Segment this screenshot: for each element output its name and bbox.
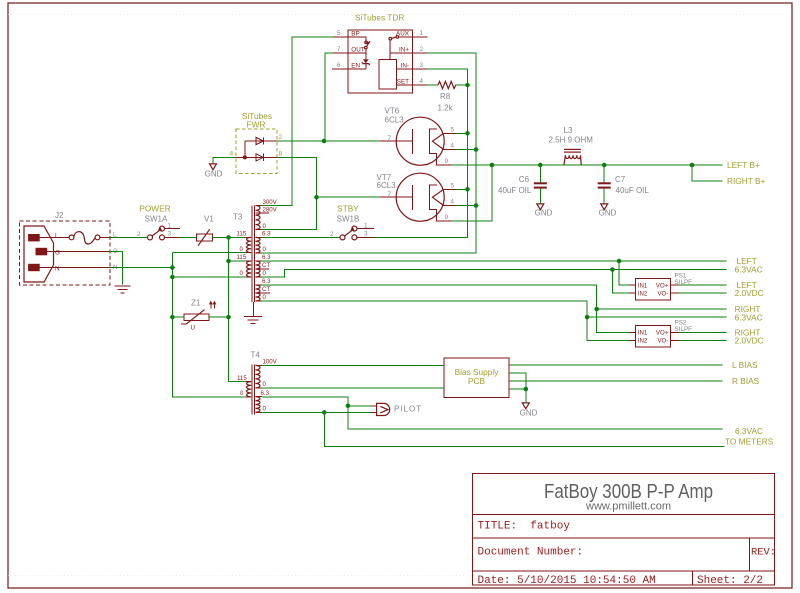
svg-text:IN1: IN1 [638,282,648,289]
T3 primary 2 stubs [246,261,251,277]
svg-text:5: 5 [337,30,341,37]
ground GND arrow at C7 [601,204,608,210]
transformer T3 primary winding 1 [247,237,252,252]
junction pilot feed [346,404,351,409]
T3 tap labels left [237,231,247,278]
T3 primary 1 stubs [246,237,251,252]
svg-text:CT: CT [262,286,270,293]
svg-text:2.5H 9 OHM: 2.5H 9 OHM [549,136,594,145]
svg-text:FWR: FWR [247,120,266,130]
wire B+ rail [452,164,723,166]
svg-text:T3: T3 [233,213,243,222]
VT7 pin numbers [388,183,455,222]
rectifier FWR dashed box [236,129,277,174]
svg-text:GND: GND [205,170,223,179]
T3 winding C stubs and CT [255,285,270,301]
transformer T4 100V secondary winding [255,365,260,388]
TDR internal block rectangle [379,59,397,89]
wire T4 100V to bias supply [262,364,444,366]
svg-text:1: 1 [420,30,424,37]
wire C7 connections [603,165,605,204]
PS2 pin names [638,329,669,344]
svg-text:BP: BP [351,31,359,38]
VT6 pin4 lead [443,149,456,151]
VT7 pin4 lead [443,205,456,207]
TDR internal switch arm [367,41,371,46]
transformer T4 core [252,364,255,414]
T3 tap stub 280V [255,212,269,214]
svg-text:6.3: 6.3 [262,254,271,261]
wire FWR pin4 to GND [213,157,236,163]
T4 primary stubs [246,382,251,397]
junction mains hot bus / T3 115 [226,259,231,264]
svg-text:C6: C6 [519,175,530,184]
wire fuse V1 to T3 primary [213,236,247,238]
junction neutral bus / T3 0 [170,275,175,280]
wire mains G to earth [110,252,123,285]
wire FWR pin2 to VT6 grid [277,140,380,142]
junction mains hot bus top [226,235,231,240]
svg-text:Date: 5/10/2015 10:54:50 AM: Date: 5/10/2015 10:54:50 AM [478,575,656,587]
wire LEFT 6.3VAC line1 [262,260,727,262]
wire PS2 VO+ to RIGHT 2.0VDC [679,332,727,334]
PS1 pin leads [629,285,679,293]
svg-text:OUT: OUT [351,47,364,54]
wire T3 winding C 6.3 to PS2 IN1 [262,285,629,333]
TDR internal IN- SET links [397,69,413,85]
faint print margin dotted line top [8,14,792,16]
inductor L3 winding [564,155,581,165]
svg-text:7: 7 [337,46,341,53]
wire TDR OUT to FWR output [325,53,333,141]
junction bias ground [524,387,529,392]
wire PS1 VO- to LEFT 2.0VDC [679,292,727,294]
wire R8 right link [456,84,468,86]
wire PS2 VO- to RIGHT 2.0VDC [679,340,727,342]
junction 6.3VAC left / PS1 IN2 [610,267,615,272]
junction VT7 pin4 [474,203,479,208]
ground GND arrow at bias supply [522,403,529,409]
svg-text:GND: GND [535,209,553,218]
J2 pin N pad [28,264,40,271]
VT6 cathode bracket [429,129,452,165]
switch SW1A pole contact [148,235,153,240]
wire pilot top lead [348,405,371,407]
wire T4 0 to pilot [262,411,371,413]
wire PS1 IN1 drop [619,261,629,285]
J2 internal wire N [40,267,110,269]
switch SW1B pin numbers [330,223,368,239]
svg-text:2: 2 [420,46,424,53]
wire C6 connections [539,165,541,204]
svg-text:6.3: 6.3 [262,231,271,238]
VT7 pin5 lead [443,188,456,190]
FWR diode D2 [256,154,264,161]
svg-text:280V: 280V [263,206,278,213]
varistor Z1 diagonal [186,310,205,325]
power supply module PS1 box [636,278,671,300]
T4 100V stubs [255,365,262,388]
FWR internal junction dot [243,155,247,159]
wire heater return bus [262,53,476,253]
svg-text:CT: CT [262,262,270,269]
svg-text:STBY: STBY [337,204,359,214]
svg-text:40uF OIL: 40uF OIL [498,186,532,195]
transformer T3 HV secondary winding [255,206,260,230]
T3 winding A stubs [255,237,262,253]
svg-text:9: 9 [445,214,449,221]
switch SW1B pin3 stub [357,236,374,238]
svg-text:V1: V1 [204,215,214,224]
svg-text:L BIAS: L BIAS [732,360,758,370]
junction B+ rail / C6 [538,163,543,168]
TDR pin numbers [337,30,424,85]
svg-text:R8: R8 [440,92,451,101]
svg-text:115: 115 [237,231,247,238]
svg-text:6: 6 [337,62,341,69]
svg-text:C7: C7 [615,175,626,184]
svg-text:Document Number:: Document Number: [478,547,584,559]
svg-text:IN-: IN- [401,63,409,70]
wire T4 6.3 to pilot and meters [262,397,723,429]
svg-text:L3: L3 [564,126,573,135]
svg-text:SET: SET [397,79,409,86]
wire VT7 pin9 to rail [452,165,492,221]
wire RIGHT 6.3VAC line1 [597,308,727,310]
svg-text:VT6: VT6 [385,107,400,116]
junction TDR OUT / FWR out [322,139,327,144]
ground GND arrow at C6 [537,204,544,210]
TDR pin names [351,31,409,86]
wire Z1 left link [172,316,184,318]
resistor R8 [438,81,456,88]
connector J2 body outline [24,226,54,282]
wire VT7 pin5 to bus [456,188,468,190]
junction 6.3VAC right / PS2 IN2 [585,315,590,320]
J2 pin G pad [36,248,48,256]
VT7 anode [380,185,412,210]
wire VT6 pin5 to bus [456,132,468,134]
switch SW1B throw contact 1 [352,226,357,231]
svg-text:G: G [55,250,60,257]
junction B+ rail / RIGHT B+ branch [690,163,695,168]
switch SW1B actuator arm [345,230,353,236]
TDR pin leads right [413,37,428,85]
TDR internal switch contacts [365,41,368,44]
switch SW1B throw contact 3 [352,235,357,240]
svg-text:100V: 100V [263,359,278,366]
svg-text:POWER: POWER [139,204,170,214]
wire primary bus vertical to T4 [229,237,247,381]
svg-text:IN1: IN1 [638,329,648,336]
TDR pin leads left [332,37,348,69]
svg-text:GND: GND [520,409,538,418]
junction VT6 pin5 [465,131,470,136]
lamp PILOT body [377,403,390,415]
svg-text:1: 1 [168,223,172,230]
IC U1 SiTubes TDR box [348,30,413,93]
bias supply PCB box [444,358,509,397]
svg-text:REV:: REV: [751,547,776,559]
svg-text:5: 5 [451,183,455,190]
wire bias R BIAS output [509,380,723,382]
svg-text:GND: GND [599,209,617,218]
junction 6.3VAC left / PS1 IN1 [617,259,622,264]
T4 tap labels [237,359,278,413]
J2 pin L pad [28,234,40,241]
wire bias L BIAS output [509,364,723,366]
J2 internal wire L to fuse [40,236,69,238]
switch SW1A throw contact 1 [160,226,165,231]
transformer T3 6.3V winding B [255,261,260,277]
transformer T3 primary winding 2 [247,261,252,277]
varistor Z1 body [184,314,209,320]
svg-text:4: 4 [230,151,234,158]
svg-text:J2: J2 [55,211,64,220]
svg-text:4: 4 [451,143,455,150]
VT7 cathode bracket [429,185,452,221]
varistor Z1 tick [181,323,186,325]
junction VT7 grid node [314,195,319,200]
svg-text:1.2k: 1.2k [438,104,454,113]
wire VT6 pin4 to bus [456,149,476,151]
FWR internal junction wire [244,141,246,157]
wire R8 left link [428,84,439,86]
svg-text:TITLE: fatboy: TITLE: fatboy [478,521,571,533]
junction VT6 pin4 [474,147,479,152]
transformer T4 primary winding [247,382,252,397]
VT6 anode [380,129,412,154]
svg-text:2: 2 [279,134,283,141]
ground earth symbol at T3 [244,317,262,324]
wire mains N [110,267,172,269]
connector J2 dashed box [20,221,111,285]
svg-text:www.pmillett.com: www.pmillett.com [585,501,671,513]
junction pilot return [322,410,327,415]
fuse V1 diagonal [198,229,210,246]
wire neutral bus vertical to T4 [172,253,246,397]
svg-text:IN2: IN2 [638,291,648,298]
svg-text:5: 5 [451,127,455,134]
wire bias ground branch [509,373,526,404]
J2 internal wire fuse to edge [100,236,110,238]
T3 tap stub HV 0 [255,229,262,231]
J2 pin names L G N [113,232,118,272]
VT6 heater chevron [433,133,444,149]
lamp PILOT leads [371,406,377,413]
wire T3 primary1 0 tap [172,252,246,254]
svg-text:LEFT B+: LEFT B+ [727,160,760,170]
lamp PILOT chevron [380,406,388,413]
switch SW1B pin1 stub [357,228,374,230]
junction mains hot bus / Z1 [226,315,231,320]
wire RIGHT 6.3VAC line2 [587,316,726,318]
J2 fuse left terminal [69,235,74,240]
svg-text:IN+: IN+ [399,47,409,54]
wire FWR pin8 to HV 0 tap [262,157,317,229]
switch SW1A pin1 stub [164,228,180,230]
switch SW1A actuator arm [152,230,160,236]
svg-text:6CL3: 6CL3 [385,116,405,125]
J2 fuse element S-curve [74,232,95,244]
svg-text:8: 8 [279,151,283,158]
svg-text:6.3: 6.3 [262,278,271,285]
switch SW1B arm arrowhead [350,227,354,230]
transformer T3 6.3V winding A [255,237,260,253]
svg-text:4: 4 [420,78,424,85]
wire SW1B pin3 to heater bus [374,69,468,237]
wire SW1A to fuse V1 [180,236,196,238]
tube VT7 envelope [396,173,444,221]
J2 fuse right terminal [95,235,100,240]
wire RIGHT B+ branch [692,165,723,181]
svg-text:Sheet: 2/2: Sheet: 2/2 [697,575,763,587]
PS2 pin leads [629,333,679,341]
svg-text:R BIAS: R BIAS [732,376,760,386]
junction 6.3VAC right / PS2 IN1 [594,307,599,312]
varistor Z1 arrows [211,303,215,309]
switch SW1B pole contact [340,235,345,240]
transformer T3 6.3V winding C [255,285,260,301]
title block frame [472,473,774,585]
capacitor C6 plates [534,182,547,184]
VT6 pin5 lead [443,132,456,134]
wire PS1 VO+ to LEFT 2.0VDC [679,284,727,286]
T3 tap labels right [262,199,278,301]
svg-text:VO+: VO+ [656,329,669,336]
svg-text:SW1B: SW1B [337,215,360,224]
svg-text:VO+: VO+ [656,282,669,289]
svg-text:300V: 300V [263,199,278,206]
FWR diode D1 [256,137,264,144]
svg-text:115: 115 [237,375,247,382]
power supply module PS2 box [636,326,671,348]
svg-text:3: 3 [364,231,368,238]
wire T3 6.3 winding A to SW1B [262,236,340,238]
J2 pad labels L G N [55,233,60,273]
wire junction to VT7 grid [317,196,381,198]
svg-text:SW1A: SW1A [145,215,168,224]
capacitor C7 plates [598,182,611,184]
junction VT7 pin5 [465,187,470,192]
ground GND arrow at FWR [210,164,217,170]
svg-text:SiTubes TDR: SiTubes TDR [355,13,404,23]
svg-text:IN2: IN2 [638,338,648,345]
wire meters return [324,412,724,446]
TDR internal zener diode [363,59,369,63]
FWR diode D1 wire [245,140,277,142]
wire 300V tap to TDR BP [262,37,333,206]
svg-text:40uF OIL: 40uF OIL [616,186,650,195]
svg-text:9: 9 [445,158,449,165]
svg-text:RIGHT B+: RIGHT B+ [727,176,765,186]
faint print margin dotted line bottom [8,575,472,577]
svg-text:6.3: 6.3 [261,390,270,397]
svg-text:7: 7 [388,135,392,142]
junction R8 / SET bus [465,83,470,88]
svg-text:1: 1 [364,223,368,230]
svg-text:4: 4 [451,199,455,206]
wire LEFT 6.3VAC line2 [262,270,727,278]
wire mains L J2 to SW1A [110,236,148,238]
wire T3 primary2 115 tap [229,260,247,262]
switch SW1A throw contact 3 [160,235,165,240]
svg-text:VO-: VO- [657,338,668,345]
svg-text:3: 3 [168,231,172,238]
wire T3 primary2 0 tap [172,276,246,278]
wire T4 100V 0 to bias supply [262,387,444,389]
TDR internal BP-OUT switch chain [348,37,366,69]
switch SW1A pin3 stub [164,236,180,238]
svg-text:PILOT: PILOT [394,405,422,414]
junction neutral bus / Z1 [170,315,175,320]
TDR internal AUX switch [399,36,413,38]
inductor L3 core bars [564,149,581,150]
switch SW1A arm arrowhead [158,227,162,230]
svg-text:3: 3 [420,62,424,69]
svg-text:EN: EN [351,63,360,70]
svg-text:RIGHT6.3VAC: RIGHT6.3VAC [735,304,763,322]
T3 tap stub 300V [255,205,262,207]
J2 internal wire G [47,251,110,253]
svg-text:RIGHT2.0VDC: RIGHT2.0VDC [735,328,764,346]
junction B+ rail / VT7 pin9 [490,163,495,168]
svg-text:L: L [55,233,59,240]
switch SW1A pin numbers [137,223,172,239]
svg-text:VO-: VO- [657,291,668,298]
svg-text:N: N [55,266,60,273]
VT6 pin numbers [388,127,455,166]
svg-text:115: 115 [237,254,247,261]
T4 6.3V stubs [255,397,262,413]
transformer T3 core [252,205,255,302]
svg-text:7: 7 [388,191,392,198]
junction B+ rail / C7 [602,163,607,168]
VT7 heater chevron [433,189,444,205]
fuse V1 body [196,234,212,241]
svg-text:Z1: Z1 [191,299,201,308]
svg-text:U: U [191,325,196,332]
wire Z1 right link [209,316,229,318]
transformer T4 6.3V secondary winding [255,397,260,413]
wire T3 winding C 0 to PS2 IN2 [262,301,629,341]
ground earth symbol at J2 G [115,286,131,293]
wire VT7 pin4 to bus [456,205,476,207]
wire PS1 IN2 drop [612,270,629,294]
T3 winding B stubs and CT [255,261,269,277]
transformer T3 core ground lead [252,302,254,316]
TDR internal IN+ link [390,40,413,59]
tube VT6 envelope [396,117,444,165]
svg-text:T4: T4 [251,351,261,360]
PS1 pin names [638,282,669,297]
FWR pin numbers [230,134,283,158]
junction neutral bus / N [170,265,175,270]
FWR diode D2 wire [236,156,277,158]
